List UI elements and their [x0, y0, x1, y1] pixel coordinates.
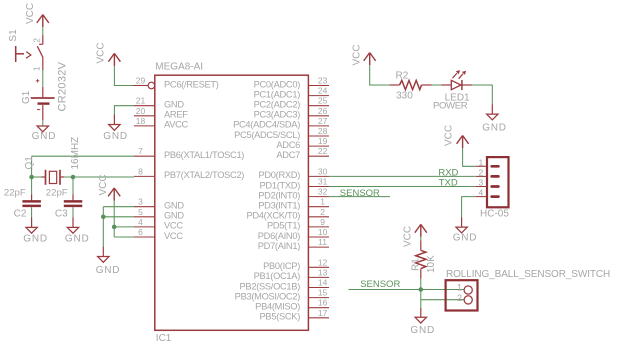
svg-text:4: 4 — [138, 217, 143, 227]
svg-text:25: 25 — [318, 96, 328, 106]
svg-text:PB2(SS/OC1B): PB2(SS/OC1B) — [240, 281, 301, 291]
svg-text:PD1(TXD): PD1(TXD) — [260, 180, 301, 190]
svg-text:VCC: VCC — [444, 125, 455, 146]
svg-text:27: 27 — [318, 116, 328, 126]
svg-text:HC-05: HC-05 — [480, 208, 509, 219]
svg-text:3: 3 — [138, 197, 143, 207]
svg-text:PB3(MOSI/OC2): PB3(MOSI/OC2) — [235, 291, 301, 301]
svg-text:2: 2 — [457, 293, 462, 303]
svg-text:10: 10 — [318, 227, 328, 237]
svg-text:VCC: VCC — [351, 44, 362, 65]
svg-text:PB5(SCK): PB5(SCK) — [260, 312, 301, 322]
svg-text:VCC: VCC — [96, 42, 107, 63]
svg-text:VCC: VCC — [98, 174, 109, 195]
svg-text:GND: GND — [164, 211, 184, 221]
svg-text:23: 23 — [318, 76, 328, 86]
svg-text:PD3(INT1): PD3(INT1) — [258, 201, 300, 211]
svg-text:Q1: Q1 — [24, 156, 35, 170]
svg-text:PD0(RXD): PD0(RXD) — [258, 170, 300, 180]
svg-text:5: 5 — [138, 207, 143, 217]
svg-text:22pF: 22pF — [46, 188, 68, 199]
svg-text:31: 31 — [318, 177, 328, 187]
svg-text:S1: S1 — [8, 29, 19, 42]
svg-text:20: 20 — [136, 106, 146, 116]
svg-text:10K: 10K — [426, 255, 437, 273]
svg-text:GND: GND — [96, 265, 121, 276]
svg-text:28: 28 — [318, 126, 328, 136]
svg-text:PD2(INT0): PD2(INT0) — [258, 190, 300, 200]
svg-text:GND: GND — [453, 233, 478, 244]
svg-text:19: 19 — [318, 136, 328, 146]
svg-text:8: 8 — [138, 166, 143, 176]
svg-text:SENSOR: SENSOR — [340, 188, 380, 199]
svg-text:1: 1 — [457, 282, 462, 292]
svg-text:29: 29 — [136, 76, 146, 86]
svg-text:16: 16 — [318, 298, 328, 308]
svg-text:AVCC: AVCC — [164, 120, 189, 130]
svg-text:GND: GND — [164, 201, 184, 211]
svg-text:3: 3 — [478, 178, 483, 188]
svg-text:GND: GND — [482, 123, 507, 134]
svg-text:4: 4 — [478, 188, 483, 198]
svg-text:14: 14 — [318, 278, 328, 288]
svg-text:AREF: AREF — [164, 110, 188, 120]
svg-text:PC2(ADC2): PC2(ADC2) — [254, 100, 301, 110]
svg-text:VCC: VCC — [25, 3, 36, 24]
svg-text:16MHZ: 16MHZ — [70, 137, 81, 170]
svg-text:GND: GND — [32, 131, 57, 142]
svg-text:22: 22 — [318, 146, 328, 156]
svg-text:PC4(ADC4/SDA): PC4(ADC4/SDA) — [233, 120, 300, 130]
svg-text:330: 330 — [396, 91, 413, 102]
svg-text:SENSOR: SENSOR — [360, 279, 400, 290]
svg-text:PB1(OC1A): PB1(OC1A) — [254, 271, 301, 281]
svg-text:32: 32 — [318, 187, 328, 197]
svg-text:17: 17 — [318, 308, 328, 318]
svg-text:1: 1 — [32, 66, 42, 71]
svg-text:12: 12 — [318, 257, 328, 267]
svg-text:VCC: VCC — [164, 221, 183, 231]
svg-text:VCC: VCC — [164, 231, 183, 241]
svg-text:2: 2 — [320, 207, 325, 217]
svg-text:21: 21 — [136, 96, 146, 106]
svg-text:C2: C2 — [14, 209, 27, 220]
svg-text:PB7(XTAL2/TOSC2): PB7(XTAL2/TOSC2) — [164, 170, 244, 180]
svg-text:CR2032V: CR2032V — [57, 61, 69, 111]
svg-text:18: 18 — [136, 116, 146, 126]
svg-text:ADC7: ADC7 — [276, 150, 300, 160]
svg-text:GND: GND — [65, 233, 90, 244]
svg-text:PB4(MISO): PB4(MISO) — [255, 302, 300, 312]
svg-text:POWER: POWER — [433, 101, 468, 112]
svg-text:MEGA8-AI: MEGA8-AI — [155, 62, 203, 73]
svg-text:15: 15 — [318, 288, 328, 298]
svg-text:1: 1 — [478, 157, 483, 167]
svg-text:7: 7 — [138, 146, 143, 156]
svg-text:PC5(ADC5/SCL): PC5(ADC5/SCL) — [234, 130, 300, 140]
svg-text:PB6(XTAL1/TOSC1): PB6(XTAL1/TOSC1) — [164, 150, 244, 160]
svg-text:ROLLING_BALL_SENSOR_SWITCH: ROLLING_BALL_SENSOR_SWITCH — [446, 269, 610, 280]
svg-text:30: 30 — [318, 166, 328, 176]
svg-text:PD6(AIN0): PD6(AIN0) — [258, 231, 300, 241]
svg-text:2: 2 — [32, 38, 42, 43]
svg-text:26: 26 — [318, 106, 328, 116]
svg-text:1: 1 — [320, 197, 325, 207]
svg-text:24: 24 — [318, 86, 328, 96]
svg-text:11: 11 — [318, 237, 327, 247]
svg-text:TXD: TXD — [439, 178, 458, 189]
svg-text:PD5(T1): PD5(T1) — [267, 221, 300, 231]
svg-text:GND: GND — [164, 100, 184, 110]
svg-text:IC1: IC1 — [156, 333, 172, 344]
svg-text:PD4(XCK/T0): PD4(XCK/T0) — [246, 211, 300, 221]
svg-text:PC6(/RESET): PC6(/RESET) — [164, 79, 219, 89]
svg-text:R2: R2 — [396, 70, 409, 81]
svg-text:PB0(ICP): PB0(ICP) — [263, 261, 300, 271]
svg-text:PC1(ADC1): PC1(ADC1) — [254, 89, 301, 99]
svg-text:2: 2 — [478, 167, 483, 177]
svg-text:6: 6 — [138, 227, 143, 237]
svg-text:PC0(ADC0): PC0(ADC0) — [254, 79, 301, 89]
svg-text:PC3(ADC3): PC3(ADC3) — [254, 110, 301, 120]
svg-text:R1: R1 — [410, 258, 421, 271]
svg-text:C3: C3 — [55, 209, 68, 220]
svg-text:13: 13 — [318, 267, 328, 277]
svg-text:PD7(AIN1): PD7(AIN1) — [258, 241, 300, 251]
svg-text:GND: GND — [103, 131, 128, 142]
svg-text:GND: GND — [23, 233, 48, 244]
svg-text:VCC: VCC — [403, 226, 414, 247]
svg-text:GND: GND — [410, 325, 435, 336]
svg-text:ADC6: ADC6 — [276, 140, 300, 150]
svg-text:G1: G1 — [21, 90, 32, 104]
svg-text:22pF: 22pF — [4, 188, 26, 199]
svg-text:9: 9 — [320, 217, 325, 227]
